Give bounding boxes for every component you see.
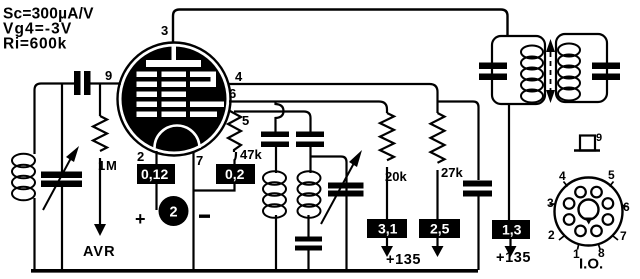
- arrow C1 variable adjustment: [43, 146, 79, 210]
- socket center key hole: [579, 200, 599, 225]
- svg-text:2,5: 2,5: [430, 221, 450, 237]
- wire C5 bottom to rail end: [477, 197, 479, 271]
- wire screen bypass branch: [438, 102, 479, 181]
- svg-text:27k: 27k: [441, 165, 463, 180]
- wire tuning cap C1 top lead: [61, 84, 63, 172]
- wire pin4 screen line: [228, 84, 438, 113]
- svg-text:20k: 20k: [385, 169, 407, 184]
- wire L2 bottom to rail: [275, 215, 277, 269]
- box 0,2 bias label: [216, 164, 255, 184]
- wire C3 bottom to rail: [307, 250, 309, 269]
- inductor L2 oscillator coil: [263, 171, 286, 218]
- box 1,3 voltage label: [492, 220, 530, 239]
- wire pin7 cathode to rail: [192, 152, 194, 269]
- svg-text:3,1: 3,1: [378, 221, 398, 237]
- svg-text:6: 6: [229, 86, 236, 101]
- svg-text:4: 4: [559, 169, 566, 183]
- minus sign heater: [199, 215, 210, 218]
- wire AVR arrow: [83, 158, 116, 260]
- inductor L3 oscillator coil: [298, 171, 321, 218]
- arrow T3 coupling adjustment: [546, 39, 555, 103]
- svg-text:5: 5: [242, 113, 249, 128]
- arrow C4 variable adjustment: [321, 150, 362, 224]
- tube V1 screen bracket pin4: [190, 72, 216, 88]
- svg-text:2: 2: [137, 149, 144, 164]
- svg-text:I.O.: I.O.: [579, 256, 603, 273]
- wire trimmer cap T1 hop lead: [276, 102, 284, 132]
- tube V1 pin6 internal lead: [190, 102, 224, 108]
- wire branch to oscillator tuning cap C4: [311, 157, 347, 270]
- wire grid line left segment with corner down to antenna coil: [35, 84, 75, 155]
- wire 0,2 box to cathode pin7: [194, 184, 235, 191]
- ground rail bottom: [31, 269, 478, 273]
- capacitor T3 primary plates: [479, 63, 507, 70]
- transformer IF T3 right can: [556, 34, 607, 102]
- wire pin6 line to 20k: [229, 102, 387, 114]
- socket pin number labels: [547, 168, 630, 261]
- box 2,5 voltage label: [419, 219, 460, 238]
- svg-text:AVR: AVR: [83, 244, 116, 260]
- resistor R1 1M AVC: [93, 84, 118, 174]
- top cap symbol pin 9: [574, 132, 602, 151]
- wire T2 to oscillator coil L3: [309, 147, 311, 173]
- capacitor T2 padder plates: [296, 132, 324, 138]
- wire T1 to oscillator coil L2: [275, 147, 277, 173]
- wire L1 bottom lead to ground rail: [33, 198, 35, 269]
- capacitor T3 secondary plates: [592, 63, 620, 70]
- svg-text:3: 3: [161, 23, 168, 38]
- socket number ticks: [550, 182, 628, 250]
- arrow 3,1 supply: [381, 238, 393, 257]
- svg-text:+: +: [135, 209, 146, 229]
- inductor T3 primary coil: [521, 46, 543, 103]
- arrow 1,3 supply: [505, 239, 517, 257]
- tube V1 anode plate bar: [146, 60, 201, 67]
- wire 27k to box 2,5: [436, 170, 438, 219]
- wire pin2 lead: [155, 151, 157, 164]
- svg-text:Ri=600k: Ri=600k: [3, 36, 67, 53]
- svg-text:0,2: 0,2: [225, 166, 245, 182]
- arrow 2,5 supply: [432, 238, 444, 257]
- wire C1 bottom lead to rail: [61, 187, 63, 269]
- svg-text:9: 9: [596, 132, 602, 144]
- svg-text:3: 3: [547, 196, 554, 210]
- svg-text:0,12: 0,12: [141, 166, 168, 182]
- socket base diagram circle: [555, 178, 623, 246]
- resistor R3 20k: [380, 113, 407, 184]
- tube V1 grid dashes left column: [137, 72, 158, 118]
- wire 20k to box 3,1: [386, 167, 388, 219]
- capacitor T1 padder plates: [261, 132, 289, 138]
- wire L3 bottom to capacitor C3: [307, 215, 309, 237]
- resistor R2 47k: [228, 111, 262, 164]
- capacitor C4 variable oscillator plates: [328, 183, 364, 189]
- inductor L1 antenna coil: [12, 154, 35, 201]
- wire T3 primary bottom to 1,3 box: [508, 104, 510, 220]
- tube V1 anode stem pin3: [172, 45, 177, 61]
- svg-text:7: 7: [620, 229, 627, 243]
- tube V1 envelope: [118, 43, 231, 156]
- svg-text:+135: +135: [496, 250, 531, 266]
- svg-text:1,3: 1,3: [502, 222, 522, 238]
- svg-text:4: 4: [235, 69, 243, 84]
- battery B1 heater 2V circle: [159, 196, 189, 226]
- svg-text:7: 7: [196, 153, 203, 168]
- tube V1 pin5 internal lead: [190, 112, 217, 118]
- svg-text:2: 2: [548, 228, 555, 242]
- svg-text:2: 2: [170, 205, 178, 221]
- box 3,1 voltage label: [367, 219, 407, 238]
- capacitor C2 grid coupling: [74, 71, 121, 95]
- tube V1 grid dashes middle column: [162, 72, 187, 118]
- capacitor C3 tracking plates: [295, 237, 322, 242]
- svg-text:+135: +135: [386, 252, 421, 268]
- resistor R4 27k: [431, 113, 464, 180]
- tube V1 cathode arc: [155, 126, 200, 149]
- wire 0,12 box down to heater battery: [155, 184, 157, 210]
- box 0,12 heater label: [137, 164, 175, 184]
- note Sc=300uA/V Vg4 Ri text block: [3, 6, 94, 53]
- transformer IF T3 left can: [492, 36, 545, 104]
- wire anode top rail to IF transformer: [173, 10, 508, 44]
- capacitor C5 screen bypass plates: [463, 181, 492, 187]
- socket pin holes: [564, 187, 613, 236]
- inductor T3 secondary coil: [558, 44, 580, 101]
- wire pin5 line to oscillator cap: [234, 112, 311, 132]
- capacitor C1 variable tuning plates: [41, 172, 82, 179]
- svg-text:9: 9: [105, 68, 112, 83]
- svg-text:5: 5: [608, 168, 615, 182]
- svg-text:47k: 47k: [240, 147, 262, 162]
